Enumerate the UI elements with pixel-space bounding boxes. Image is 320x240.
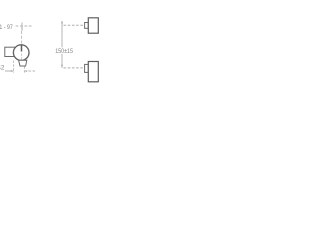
wall bracket plate (side view) xyxy=(5,47,16,56)
background xyxy=(0,0,100,100)
clamp nut below knob xyxy=(19,60,27,66)
svg-text:1 - 97: 1 - 97 xyxy=(0,24,13,31)
lower fixing reference dashed line (right view) xyxy=(64,67,86,69)
extension line left (dashed) xyxy=(13,61,15,73)
upper rail bracket tab xyxy=(85,23,89,29)
lower rail bracket tab xyxy=(85,64,89,72)
vertical centerline (dashed) above knob xyxy=(21,31,23,44)
vertical dimension line 150±15, upper segment with up arrow xyxy=(61,21,63,48)
knob circle xyxy=(13,45,29,61)
upper fixing reference dashed line (right view) xyxy=(64,24,86,26)
top dimension arrow (up) with stub xyxy=(21,23,23,32)
svg-text:42: 42 xyxy=(0,64,5,71)
top reference dashed line (left view) xyxy=(16,25,32,27)
upper rail bracket body xyxy=(88,18,98,33)
extension line right (dashed) xyxy=(23,67,25,73)
svg-text:150±15: 150±15 xyxy=(55,48,73,55)
centerline (dashed) through lower knob xyxy=(21,54,23,61)
lower rail bracket body xyxy=(88,62,98,82)
vertical dimension line 150±15, lower segment with down arrow xyxy=(61,54,63,68)
screw slot on knob xyxy=(21,45,23,51)
depth dimension line, right arrow with trailing dashes xyxy=(24,70,27,72)
depth dimension line, left arrow xyxy=(5,70,14,72)
